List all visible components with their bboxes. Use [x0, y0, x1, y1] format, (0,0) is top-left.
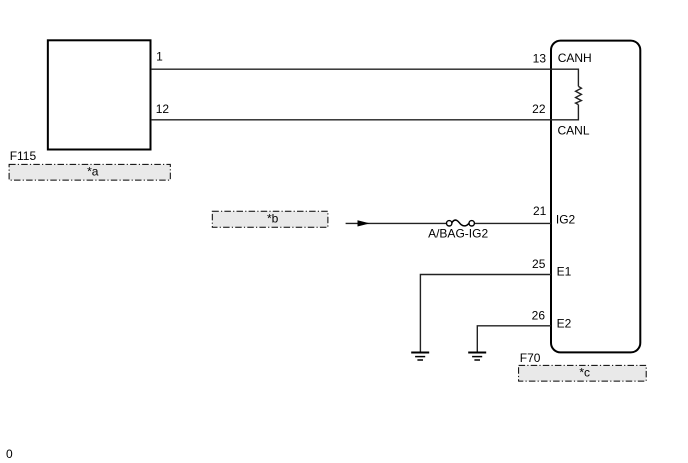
svg-text:1: 1 [156, 50, 163, 64]
svg-text:F70: F70 [520, 351, 541, 365]
svg-text:*b: *b [267, 212, 279, 226]
svg-text:F115: F115 [10, 149, 37, 163]
svg-text:12: 12 [156, 102, 170, 116]
svg-text:E2: E2 [557, 317, 572, 331]
svg-text:CANH: CANH [558, 51, 592, 65]
svg-text:13: 13 [533, 52, 547, 66]
svg-text:22: 22 [532, 102, 546, 116]
svg-text:0: 0 [6, 447, 13, 461]
svg-text:CANL: CANL [558, 124, 590, 138]
svg-text:*c: *c [579, 366, 590, 380]
svg-text:A/BAG-IG2: A/BAG-IG2 [428, 227, 488, 241]
svg-text:25: 25 [532, 257, 546, 271]
svg-text:E1: E1 [557, 264, 572, 278]
svg-text:*a: *a [87, 165, 99, 179]
svg-text:21: 21 [533, 204, 547, 218]
svg-text:IG2: IG2 [556, 212, 576, 226]
svg-text:26: 26 [532, 308, 546, 322]
